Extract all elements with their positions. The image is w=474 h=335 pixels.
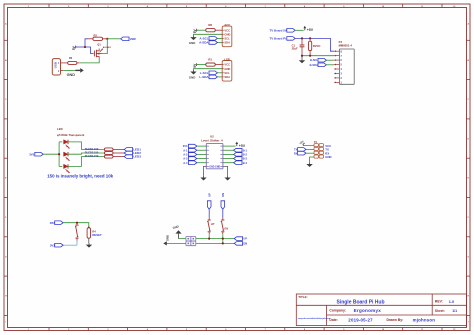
svg-text:R2: R2 xyxy=(94,33,98,37)
wire U2 right pin 3 xyxy=(223,153,234,155)
svg-text:A-2: A-2 xyxy=(183,153,188,157)
ground symbol LSR xyxy=(189,70,197,79)
svg-text:LED: LED xyxy=(57,127,63,131)
net flag L-SCL xyxy=(200,71,218,75)
LED LED2 xyxy=(64,152,70,161)
label RX xyxy=(325,151,329,155)
svg-text:Single Board Pi Hub: Single Board Pi Hub xyxy=(336,300,384,306)
wire 5V to R1 xyxy=(197,64,206,66)
wire U2 right pin 4 xyxy=(223,158,234,160)
svg-text:TV Board 5V: TV Board 5V xyxy=(270,28,287,32)
easyeda url xyxy=(298,317,331,320)
junction C1 top xyxy=(301,37,303,39)
svg-text:RLED2 150: RLED2 150 xyxy=(85,150,99,154)
title text Single Board Pi Hub xyxy=(336,300,384,306)
svg-text:3V3: 3V3 xyxy=(183,144,188,148)
wire U2 gnd left xyxy=(204,166,207,176)
net flag TV Board 5V xyxy=(270,28,296,32)
svg-text:L-SDA: L-SDA xyxy=(199,75,209,79)
wire 5V to gate and resistor xyxy=(76,39,94,54)
sheet row xyxy=(435,309,457,313)
resistor R2 xyxy=(88,33,107,40)
svg-text:+5V: +5V xyxy=(307,28,314,32)
label LED xyxy=(57,127,63,131)
svg-text:UP: UP xyxy=(211,223,215,226)
wire LED1 to RLED1 xyxy=(68,142,104,150)
ground symbol U2 left xyxy=(200,176,206,181)
svg-text:Level_Shifter_4: Level_Shifter_4 xyxy=(201,139,223,143)
net flag 3V3 xyxy=(183,144,197,148)
wire ttl gnd xyxy=(310,157,314,162)
ground flag right arrow xyxy=(67,68,84,77)
svg-text:1/1: 1/1 xyxy=(452,309,457,313)
net flag B-SDA xyxy=(310,63,335,67)
svg-text:USB: USB xyxy=(54,62,58,68)
net flag B-SCL xyxy=(310,58,334,62)
net flag A-2 xyxy=(183,153,197,157)
transistor Q1 AO3401 xyxy=(94,44,111,59)
drawn by row xyxy=(387,318,436,323)
svg-text:B-1: B-1 xyxy=(243,148,248,152)
ground symbol reset xyxy=(86,243,92,248)
svg-text:GND: GND xyxy=(189,41,195,45)
power flag +5V top xyxy=(303,26,313,32)
switch S2 UP xyxy=(207,218,215,235)
svg-text:Date:: Date: xyxy=(329,318,337,322)
junction RVCC bottom xyxy=(309,55,311,57)
junction node VBR xyxy=(106,38,108,40)
wire U2 left pin 5 xyxy=(197,162,207,164)
wire LED2 to RLED2 xyxy=(68,153,104,154)
wire GND row ACC xyxy=(194,34,223,35)
net flag B-3 xyxy=(234,157,248,161)
comment text brightness xyxy=(47,174,113,179)
svg-text:TV Board Pi: TV Board Pi xyxy=(270,36,287,40)
svg-text:3V3: 3V3 xyxy=(29,152,34,156)
wire 3V3 reset xyxy=(63,244,77,246)
junction RVCC top xyxy=(309,37,311,39)
svg-text:Drawn By:: Drawn By: xyxy=(387,318,404,322)
date row xyxy=(329,318,373,323)
wire switch UP down xyxy=(208,234,210,238)
power flag 5V LSR xyxy=(193,63,197,68)
svg-text:+5V: +5V xyxy=(239,144,246,148)
svg-text:RLED1 150: RLED1 150 xyxy=(85,147,99,151)
resistor RLED1 150 xyxy=(85,147,124,151)
net flag B-4 xyxy=(234,161,248,165)
net flag A-3 xyxy=(183,157,197,161)
svg-text:B-4: B-4 xyxy=(243,161,248,165)
connector LSR xyxy=(222,57,232,81)
net flag 3V3 reset xyxy=(50,243,63,247)
LED LED1 xyxy=(64,140,70,149)
connector J1 USB xyxy=(52,59,63,75)
net flag A-SDA xyxy=(199,41,217,45)
svg-text:2019-05-27: 2019-05-27 xyxy=(348,318,373,323)
wire LED left rail xyxy=(59,142,62,167)
svg-text:B-3: B-3 xyxy=(243,157,248,161)
title block frame xyxy=(296,294,466,326)
wire SCL ACC xyxy=(217,37,222,39)
net flag B-1 xyxy=(234,148,248,152)
svg-text:150 is insanely bright, need 1: 150 is insanely bright, need 10k xyxy=(47,174,113,179)
net flag DN vertical xyxy=(221,193,225,209)
svg-text:DN: DN xyxy=(221,193,225,197)
wire source to R0 xyxy=(79,59,99,63)
ground symbol ttl xyxy=(306,162,312,167)
net flag LED3 xyxy=(124,155,141,159)
power flag 5V xyxy=(72,45,76,50)
wire 5V to R8 xyxy=(197,29,206,31)
wire RST xyxy=(63,223,89,228)
wire gnd rail top xyxy=(179,238,235,240)
svg-text:VCC: VCC xyxy=(224,63,230,67)
op-amp U2 Level_Shifter_4 xyxy=(201,134,223,169)
svg-text:Sheet:: Sheet: xyxy=(435,309,445,313)
svg-text:SDA: SDA xyxy=(224,75,230,79)
net flag TX xyxy=(294,148,314,152)
junction DN rail xyxy=(222,242,224,244)
junction RST xyxy=(76,222,78,224)
power flag 5V ACC xyxy=(193,29,197,34)
resistor R8 xyxy=(206,23,222,32)
ground symbol up-arrow xyxy=(172,224,182,238)
net flag B-2 xyxy=(234,153,248,157)
svg-text:GND: GND xyxy=(224,32,230,36)
junction LED rail xyxy=(58,153,60,155)
svg-text:R8: R8 xyxy=(208,23,212,27)
net flag A-4 xyxy=(183,161,197,165)
net flag DN right xyxy=(234,242,247,246)
svg-text:TITLE:: TITLE: xyxy=(298,295,307,299)
wire SDA ACC xyxy=(217,42,222,44)
wire GND row LSR xyxy=(194,69,223,70)
wire U2 left pin 3 xyxy=(197,153,207,155)
svg-text:A-4: A-4 xyxy=(183,161,188,165)
net flag LED1 xyxy=(124,148,141,152)
svg-text:GND: GND xyxy=(325,155,331,159)
svg-text:A-1: A-1 xyxy=(183,148,188,152)
connector ACC xyxy=(222,23,232,47)
wire U2 left pin 4 xyxy=(197,158,207,160)
net flag A-1 xyxy=(183,148,197,152)
svg-text:GND GND: GND GND xyxy=(209,167,220,169)
svg-text:Company:: Company: xyxy=(329,309,346,313)
wire U2 pin to +5V xyxy=(223,145,236,147)
junction DN cross xyxy=(222,238,224,240)
net flag RST xyxy=(50,221,63,225)
wire U2 right pin 5 xyxy=(223,162,234,164)
net flag RX xyxy=(294,151,314,155)
svg-text:SCL: SCL xyxy=(224,37,230,41)
svg-text:GND: GND xyxy=(166,235,170,241)
resistor RLED2 150 xyxy=(85,150,124,154)
resistor RVCC xyxy=(309,38,321,55)
company row xyxy=(329,308,381,313)
label VCC xyxy=(325,144,331,148)
net flag UP right xyxy=(234,237,247,241)
svg-text:GND: GND xyxy=(67,73,76,77)
power flag +5V level shifter xyxy=(235,142,245,148)
svg-text:ACC: ACC xyxy=(224,23,230,27)
wire ttl vcc xyxy=(303,144,314,146)
svg-text:RVCC: RVCC xyxy=(313,44,321,48)
wire SDA LSR xyxy=(217,76,222,78)
svg-text:RX: RX xyxy=(294,152,298,155)
svg-text:DN: DN xyxy=(224,227,228,230)
ground symbol U2 right xyxy=(224,176,230,181)
svg-text:LSR: LSR xyxy=(224,57,230,61)
resistor RLED3 150 xyxy=(85,154,124,158)
resistor R4 xyxy=(87,227,102,244)
svg-text:B-SCL: B-SCL xyxy=(310,58,318,62)
title block TITLE label xyxy=(298,295,307,299)
svg-text:B-2: B-2 xyxy=(243,153,248,157)
svg-text:mjohnson: mjohnson xyxy=(413,318,436,323)
svg-text:SDA: SDA xyxy=(224,41,230,45)
wire U2 right pin 2 xyxy=(223,149,234,151)
junction node 5V xyxy=(84,46,86,48)
net flag UP vertical xyxy=(207,193,211,209)
wire 3V3 to LEDs xyxy=(43,153,59,155)
svg-text:easyeda.com/editor#id=mjohnson: easyeda.com/editor#id=mjohnson xyxy=(298,317,331,320)
capacitor C1 22uF xyxy=(292,38,305,55)
svg-text:LED3: LED3 xyxy=(133,155,141,159)
wire SCL LSR xyxy=(217,72,222,74)
svg-text:VCC: VCC xyxy=(224,28,230,32)
wire to GND xyxy=(63,69,78,71)
net flag L-SDA xyxy=(199,75,217,79)
svg-text:R1: R1 xyxy=(208,57,212,61)
connector H1 jumper xyxy=(186,236,196,245)
resistor R0 xyxy=(63,57,79,65)
net flag TV Board GND xyxy=(270,36,296,40)
svg-text:RLED3 150: RLED3 150 xyxy=(85,154,99,158)
svg-text:A-3: A-3 xyxy=(183,157,188,161)
switch S3 DN xyxy=(221,218,229,235)
wire U2 gnd right xyxy=(223,166,228,176)
net flag LED2 xyxy=(124,151,141,155)
wire flag to switch UP xyxy=(208,209,210,217)
svg-text:SCL: SCL xyxy=(224,71,230,75)
svg-text:GND: GND xyxy=(224,67,230,71)
connector PJ MM8051-4 xyxy=(334,40,354,84)
junction UP rail xyxy=(208,238,210,240)
power flag +5V ttl xyxy=(298,139,304,145)
net flag 3V3 LED xyxy=(29,152,43,156)
svg-text:φ5 RGB Transparent: φ5 RGB Transparent xyxy=(57,133,84,137)
svg-text:1.0: 1.0 xyxy=(449,300,454,304)
net flag A-SCL xyxy=(199,37,217,41)
net flag VBR xyxy=(121,37,136,41)
wire U2 left pin 1 xyxy=(197,145,207,147)
svg-text:Ergonomyx: Ergonomyx xyxy=(354,308,382,313)
svg-text:MM8051-4: MM8051-4 xyxy=(339,43,353,47)
label phi5 RGB Transparent xyxy=(57,133,84,137)
ground symbol topright xyxy=(299,56,305,64)
ground symbol left-arrow xyxy=(163,235,169,246)
wire TV Board to pin 8 xyxy=(295,38,334,51)
label GND ttl xyxy=(325,155,331,159)
svg-text:VBR: VBR xyxy=(130,37,136,41)
LED LED3 xyxy=(64,164,70,173)
wire cap-res to pin 7 xyxy=(302,55,334,57)
wire flag to switch DN xyxy=(222,209,224,217)
wire to VBR flag xyxy=(107,38,120,40)
svg-text:REV:: REV: xyxy=(435,300,443,304)
wire LED3 to RLED3 xyxy=(68,157,104,167)
svg-text:DN: DN xyxy=(243,242,247,246)
wire drain xyxy=(102,39,107,54)
svg-text:UP: UP xyxy=(243,237,247,241)
switch S1 RESET xyxy=(75,223,79,246)
svg-text:AO3401: AO3401 xyxy=(103,46,112,49)
wire switch DN down xyxy=(222,234,224,243)
wire gnd rail bottom xyxy=(166,242,234,244)
ground symbol ACC xyxy=(189,36,197,45)
svg-text:TX: TX xyxy=(294,149,297,152)
svg-text:UP: UP xyxy=(207,193,211,197)
svg-text:RESET: RESET xyxy=(92,233,102,237)
svg-text:B-SDA: B-SDA xyxy=(310,63,318,67)
junction C1 bottom xyxy=(301,55,303,57)
rev label xyxy=(435,300,454,304)
wire to +5V xyxy=(295,29,303,31)
svg-text:GND: GND xyxy=(189,75,195,79)
resistor R1 xyxy=(206,57,222,66)
connector P1 TTL header xyxy=(314,141,324,158)
svg-text:A-SDA: A-SDA xyxy=(199,41,209,45)
label TX xyxy=(325,148,329,152)
wire U2 left pin 2 xyxy=(197,149,207,151)
svg-text:22uF: 22uF xyxy=(292,47,298,51)
